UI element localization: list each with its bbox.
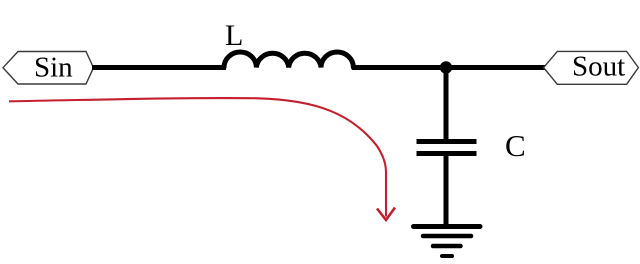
wire node to capacitor — [444, 65, 449, 140]
port Sin — [3, 52, 94, 85]
wire Sin to inductor — [92, 65, 226, 70]
wire inductor to node to Sout — [352, 65, 545, 70]
red arrowhead — [377, 208, 395, 221]
svg-text:L: L — [225, 19, 243, 52]
inductor L — [224, 52, 353, 68]
svg-text:Sout: Sout — [572, 51, 625, 83]
node junction — [440, 61, 452, 73]
wire capacitor to ground — [444, 154, 449, 227]
svg-text:Sin: Sin — [34, 52, 73, 84]
port Sout — [544, 51, 639, 85]
ground — [414, 227, 481, 257]
svg-text:C: C — [505, 128, 526, 163]
capacitor C — [417, 142, 477, 154]
current path annotation (red curve) — [9, 98, 386, 217]
